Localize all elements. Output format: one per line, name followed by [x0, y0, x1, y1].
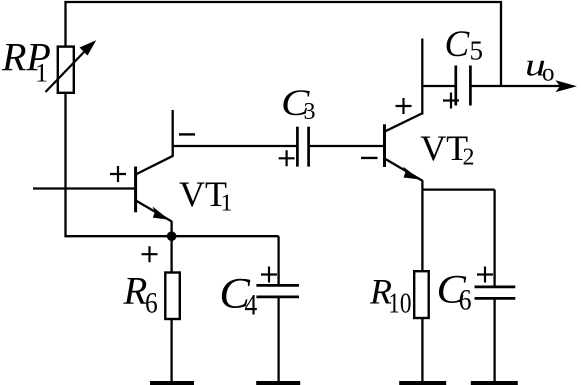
svg-text:10: 10 — [388, 287, 411, 319]
svg-text:VT: VT — [420, 128, 468, 168]
svg-text:1: 1 — [35, 59, 48, 88]
svg-text:3: 3 — [304, 99, 316, 125]
svg-text:1: 1 — [221, 191, 233, 217]
svg-text:R: R — [123, 270, 148, 313]
svg-text:5: 5 — [470, 36, 484, 66]
svg-text:2: 2 — [463, 145, 475, 171]
svg-text:6: 6 — [145, 287, 158, 320]
svg-text:4: 4 — [245, 289, 258, 322]
svg-text:6: 6 — [459, 284, 472, 317]
svg-text:C: C — [445, 24, 471, 65]
svg-text:o: o — [542, 60, 555, 87]
